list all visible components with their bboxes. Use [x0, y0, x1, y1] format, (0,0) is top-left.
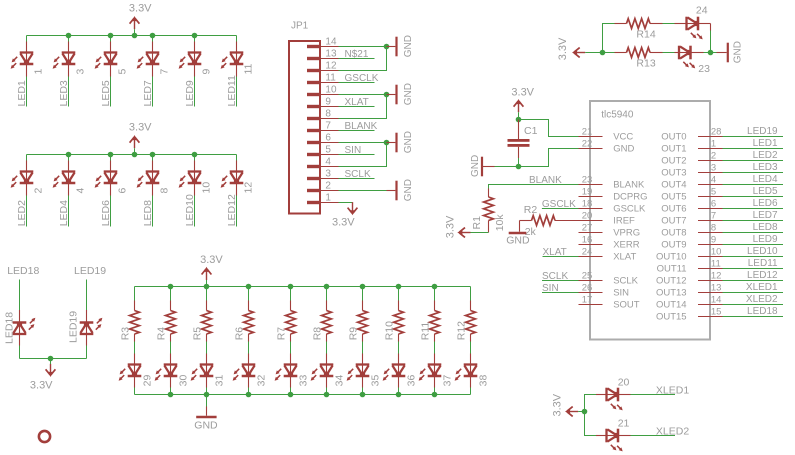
svg-text:LED9: LED9 — [184, 80, 196, 106]
IC pin 21 VCC — [579, 136, 603, 138]
hole marker — [39, 431, 50, 442]
ground GND (R2) — [519, 221, 521, 232]
ground GND (JP1 pin 14) — [387, 46, 396, 48]
wire 3.3V rail row2 — [27, 154, 237, 156]
wire LED10 anode — [194, 155, 196, 161]
connector JP1 body — [289, 41, 320, 214]
svg-text:OUT14: OUT14 — [656, 300, 687, 311]
resistor R10 — [394, 311, 404, 335]
wire LED1 anode — [26, 36, 28, 42]
junction row1 supply — [132, 33, 138, 39]
wire 3.3V to junction XLED — [578, 411, 584, 413]
svg-text:OUT15: OUT15 — [656, 312, 687, 323]
LED LED9 — [179, 52, 202, 69]
IC pin 27 VPRG — [579, 232, 603, 234]
wire LED 33 cathode — [290, 376, 292, 388]
svg-text:LED8: LED8 — [142, 200, 154, 226]
wire R11 to LED — [434, 334, 436, 342]
svg-text:3.3V: 3.3V — [511, 87, 534, 99]
wire R12 to LED — [470, 334, 472, 342]
svg-text:LED6: LED6 — [753, 198, 778, 209]
IC pin 3 OUT3 — [698, 172, 723, 174]
wire net LED4 — [723, 184, 784, 186]
svg-text:XERR: XERR — [613, 240, 640, 251]
wire JP1 pin 6 to GND — [339, 142, 387, 144]
svg-text:GND: GND — [403, 131, 414, 153]
wire LED 34 cathode — [326, 376, 328, 388]
IC pin 11 OUT11 — [698, 268, 723, 270]
wire R3 top — [134, 287, 136, 301]
wire net LED8 — [723, 232, 784, 234]
junction JP1 GND pins 6/4 — [384, 140, 390, 146]
svg-text:9: 9 — [200, 69, 212, 75]
capacitor C1 — [518, 120, 520, 140]
svg-text:GND: GND — [403, 179, 414, 201]
svg-text:34: 34 — [334, 375, 346, 387]
svg-text:26: 26 — [582, 283, 593, 294]
resistor R6 — [244, 311, 254, 335]
IC pin 6 OUT6 — [698, 208, 723, 210]
svg-text:24: 24 — [696, 4, 708, 16]
wire LED7 anode — [152, 36, 154, 42]
junction GND node — [516, 164, 522, 170]
junction array top col7 — [360, 284, 366, 290]
svg-text:LED11: LED11 — [226, 75, 238, 106]
svg-text:5: 5 — [116, 69, 128, 75]
svg-text:3.3V: 3.3V — [129, 122, 152, 134]
LED LED18 — [13, 318, 36, 335]
junction array bottom col3 — [204, 392, 210, 398]
wire R9 to LED — [362, 334, 364, 342]
svg-text:SCLK: SCLK — [613, 276, 638, 287]
wire R10 to LED — [398, 334, 400, 342]
resistor R7 — [286, 311, 296, 335]
LED LED19 — [80, 318, 103, 335]
wire 3.3V to junction — [585, 52, 602, 54]
wire LED18 cathode — [19, 280, 21, 311]
wire net LED19 — [723, 136, 784, 138]
svg-text:10: 10 — [711, 247, 722, 258]
wire GND to pin22 — [519, 149, 579, 167]
junction row1 col3 — [108, 33, 114, 39]
svg-text:XLED1: XLED1 — [656, 384, 689, 396]
wire net BLANK (JP1 pin 7) — [339, 130, 375, 132]
wire LED 32 cathode — [248, 376, 250, 388]
svg-text:OUT3: OUT3 — [661, 168, 686, 179]
svg-text:XLED1: XLED1 — [746, 282, 778, 293]
wire net SIN — [542, 292, 579, 294]
svg-text:OUT10: OUT10 — [656, 252, 687, 263]
connector JP1 pin 2 — [307, 189, 320, 192]
svg-text:8: 8 — [711, 223, 716, 234]
IC pin 19 DCPRG — [579, 196, 603, 198]
wire LED2 cathode — [26, 183, 28, 196]
svg-text:11: 11 — [325, 73, 336, 84]
LED array 34 — [311, 364, 334, 381]
wire net XLAT — [543, 256, 579, 258]
wire LED 35 cathode — [362, 376, 364, 388]
svg-text:OUT4: OUT4 — [661, 180, 686, 191]
wire net GSCLK (JP1 pin 11) — [339, 82, 375, 84]
svg-text:OUT12: OUT12 — [656, 276, 687, 287]
IC pin 13 OUT13 — [698, 292, 723, 294]
wire R5 to LED — [206, 334, 208, 342]
wire net LED11 — [723, 268, 784, 270]
resistor R3 — [130, 311, 140, 335]
wire net SCLK (JP1 pin 3) — [339, 178, 375, 180]
IC pin 24 XLAT — [579, 256, 603, 258]
svg-text:GND: GND — [403, 35, 414, 57]
connector JP1 pin 14 — [307, 45, 320, 48]
LED array 35 — [347, 364, 370, 381]
LED LED11 — [221, 52, 244, 69]
svg-text:10k: 10k — [494, 214, 506, 232]
IC pin 28 OUT0 — [698, 136, 723, 138]
svg-text:SCLK: SCLK — [542, 271, 568, 282]
wire LED23 cathode — [691, 52, 704, 54]
wire LED1 cathode — [26, 64, 28, 77]
wire LED19 cathode — [86, 280, 88, 311]
wire R1 to 3.3V — [488, 221, 490, 233]
svg-text:N$21: N$21 — [345, 49, 369, 60]
wire LED 30 cathode — [170, 376, 172, 388]
svg-text:1: 1 — [711, 139, 716, 150]
wire R12 top — [470, 287, 472, 301]
svg-text:3.3V: 3.3V — [30, 380, 53, 392]
ground GND (JP1 pin 2) — [387, 190, 396, 192]
svg-text:LED7: LED7 — [753, 210, 778, 221]
LED array 32 — [233, 364, 256, 381]
wire JP1 pin 12 to GND — [339, 47, 387, 71]
svg-text:SIN: SIN — [345, 145, 362, 156]
wire to R13 — [603, 52, 615, 54]
wire JP1 pin 1 to 3.3V — [339, 202, 353, 204]
svg-text:28: 28 — [711, 127, 722, 138]
svg-text:LED6: LED6 — [100, 200, 112, 226]
connector JP1 pin 11 — [307, 81, 320, 84]
junction row1 col4 — [150, 33, 156, 39]
IC pin 17 SOUT — [579, 304, 603, 306]
IC pin 22 GND — [579, 148, 603, 150]
wire LED11 anode — [236, 36, 238, 42]
svg-text:DCPRG: DCPRG — [613, 192, 647, 203]
resistor R14 — [615, 23, 627, 25]
svg-text:XLED2: XLED2 — [656, 426, 689, 438]
svg-text:LED4: LED4 — [753, 174, 778, 185]
svg-text:7: 7 — [158, 69, 170, 75]
svg-text:3.3V: 3.3V — [551, 393, 563, 416]
svg-text:36: 36 — [406, 375, 418, 387]
svg-text:LED1: LED1 — [16, 80, 28, 106]
wire R11 top — [434, 287, 436, 301]
svg-text:GND: GND — [613, 144, 634, 155]
resistor R1 — [488, 189, 490, 198]
svg-text:R2: R2 — [524, 204, 538, 216]
IC pin 23 BLANK — [579, 184, 603, 186]
svg-text:LED19: LED19 — [74, 265, 106, 277]
wire net XLAT (JP1 pin 9) — [339, 106, 375, 108]
svg-text:GSCLK: GSCLK — [345, 73, 379, 84]
wire net XLED2 — [723, 304, 784, 306]
svg-text:R12: R12 — [456, 321, 468, 340]
svg-text:XLAT: XLAT — [543, 247, 567, 258]
wire net GSCLK — [542, 208, 579, 210]
wire R14 to LED24 — [663, 23, 675, 25]
svg-text:4: 4 — [711, 175, 716, 186]
LED array 36 — [383, 364, 406, 381]
wire net LED2 — [723, 160, 784, 162]
svg-text:4: 4 — [325, 157, 331, 168]
wire R5 top — [206, 287, 208, 301]
svg-text:GSCLK: GSCLK — [542, 199, 576, 210]
wire net LED10 — [723, 256, 784, 258]
svg-text:6: 6 — [711, 199, 716, 210]
IC pin 12 OUT12 — [698, 280, 723, 282]
svg-text:XLAT: XLAT — [613, 252, 636, 263]
svg-text:OUT7: OUT7 — [661, 216, 686, 227]
svg-text:IREF: IREF — [613, 216, 635, 227]
svg-text:OUT6: OUT6 — [661, 204, 686, 215]
svg-text:LED3: LED3 — [753, 162, 778, 173]
ground GND (LED23/24) — [711, 52, 717, 54]
wire JP1 pin 2 to GND — [339, 190, 387, 192]
wire LED18 LED19 common anode rail — [20, 358, 87, 360]
svg-text:3.3V: 3.3V — [557, 37, 569, 60]
svg-text:R3: R3 — [120, 327, 132, 341]
svg-text:2: 2 — [325, 181, 331, 192]
connector JP1 pin 5 — [307, 153, 320, 156]
svg-text:8: 8 — [158, 188, 170, 194]
resistor R2 — [520, 220, 532, 222]
svg-text:3: 3 — [74, 69, 86, 75]
resistor R12 — [466, 311, 476, 335]
junction LED18/19 rail — [48, 356, 54, 362]
svg-text:LED2: LED2 — [16, 200, 28, 226]
svg-text:8: 8 — [325, 109, 331, 120]
wire LED12 cathode — [236, 183, 238, 196]
svg-text:LED18: LED18 — [7, 265, 39, 277]
junction array bottom col6 — [324, 392, 330, 398]
junction array bottom col2 — [168, 392, 174, 398]
LED array 33 — [275, 364, 298, 381]
wire LED3 anode — [68, 36, 70, 42]
svg-text:13: 13 — [325, 49, 337, 60]
junction array bottom col5 — [288, 392, 294, 398]
wire R6 top — [248, 287, 250, 301]
wire LED4 cathode — [68, 183, 70, 196]
svg-text:1: 1 — [32, 69, 44, 75]
wire net LED7 — [723, 220, 784, 222]
svg-text:OUT1: OUT1 — [661, 144, 686, 155]
wire LED7 cathode — [152, 64, 154, 77]
supply 3.3V R13/R14 — [572, 48, 585, 58]
svg-text:31: 31 — [214, 375, 226, 387]
wire JP1 pin 8 to GND — [339, 95, 387, 119]
svg-text:VPRG: VPRG — [613, 228, 640, 239]
wire net XLED1 — [723, 292, 784, 294]
wire net LED3 — [723, 172, 784, 174]
svg-text:OUT0: OUT0 — [661, 132, 686, 143]
svg-text:1: 1 — [325, 193, 331, 204]
junction XLED — [582, 409, 588, 415]
svg-text:22: 22 — [582, 139, 593, 150]
svg-text:5: 5 — [325, 145, 331, 156]
svg-text:LED7: LED7 — [142, 80, 154, 106]
svg-text:10: 10 — [200, 182, 212, 194]
svg-text:R11: R11 — [420, 322, 432, 341]
svg-text:SOUT: SOUT — [613, 300, 640, 311]
svg-text:9: 9 — [325, 97, 331, 108]
junction row2 supply — [132, 152, 138, 158]
svg-text:3.3V: 3.3V — [200, 254, 223, 266]
LED array 38 — [455, 364, 478, 381]
supply 3.3V row1 — [130, 16, 140, 29]
svg-text:OUT13: OUT13 — [656, 288, 687, 299]
svg-text:GND: GND — [733, 41, 744, 63]
wire LED 31 cathode — [206, 376, 208, 388]
svg-text:LED8: LED8 — [753, 222, 778, 233]
svg-text:LED2: LED2 — [753, 150, 778, 161]
svg-text:LED1: LED1 — [753, 138, 778, 149]
svg-text:LED19: LED19 — [747, 126, 778, 137]
connector JP1 pin 4 — [307, 165, 320, 168]
svg-text:R6: R6 — [234, 327, 246, 341]
LED array 31 — [191, 364, 214, 381]
svg-text:LED10: LED10 — [747, 246, 778, 257]
svg-text:R14: R14 — [636, 29, 655, 41]
svg-text:23: 23 — [582, 175, 593, 186]
supply 3.3V array — [202, 267, 212, 280]
wire to R14 — [603, 24, 615, 53]
LED 24 — [686, 17, 703, 40]
wire R8 to LED — [326, 334, 328, 342]
svg-text:12: 12 — [711, 271, 722, 282]
wire R7 top — [290, 287, 292, 301]
wire net LED12 — [723, 280, 784, 282]
svg-text:11: 11 — [711, 259, 721, 270]
connector JP1 pin 9 — [307, 105, 320, 108]
junction row1 col2 — [66, 33, 72, 39]
wire LED5 anode — [110, 36, 112, 42]
connector JP1 pin 12 — [307, 69, 320, 72]
svg-text:LED18: LED18 — [747, 306, 778, 317]
wire R9 top — [362, 287, 364, 301]
svg-text:JP1: JP1 — [291, 21, 309, 32]
svg-text:LED18: LED18 — [3, 312, 15, 344]
junction array bottom col4 — [246, 392, 252, 398]
svg-text:20: 20 — [618, 376, 630, 388]
svg-text:2: 2 — [32, 188, 44, 194]
svg-text:LED4: LED4 — [58, 200, 70, 226]
junction JP1 GND pins 10/8 — [384, 92, 390, 98]
svg-text:16: 16 — [582, 235, 593, 246]
wire LED 38 cathode — [470, 376, 472, 388]
IC pin 14 OUT14 — [698, 304, 723, 306]
supply 3.3V XLED — [565, 407, 578, 417]
svg-text:R13: R13 — [636, 58, 655, 70]
svg-text:LED5: LED5 — [100, 80, 112, 106]
wire JP1 pin 4 to GND — [339, 143, 387, 167]
wire LED 36 cathode — [398, 376, 400, 388]
svg-text:OUT2: OUT2 — [661, 156, 686, 167]
svg-text:R8: R8 — [312, 327, 324, 341]
wire VCC to pin21 — [519, 120, 579, 137]
wire LED6 cathode — [110, 183, 112, 196]
svg-text:14: 14 — [711, 295, 722, 306]
IC pin 26 SIN — [579, 292, 603, 294]
IC pin 20 IREF — [579, 220, 603, 222]
svg-text:23: 23 — [698, 63, 710, 75]
IC pin 4 OUT4 — [698, 184, 723, 186]
svg-text:LED3: LED3 — [58, 80, 70, 106]
wire JP1 pin 10 to GND — [339, 94, 387, 96]
wire net LED6 — [723, 208, 784, 210]
svg-text:5: 5 — [711, 187, 716, 198]
LED LED1 — [11, 52, 34, 69]
junction array top col6 — [324, 284, 330, 290]
ground GND (C1) — [495, 166, 519, 168]
svg-text:12: 12 — [242, 182, 254, 194]
svg-text:SCLK: SCLK — [345, 169, 371, 180]
IC U1 tlc5940 body — [590, 101, 710, 340]
wire net LED9 — [723, 244, 784, 246]
connector JP1 pin 8 — [307, 117, 320, 120]
LED 23 — [678, 46, 695, 69]
resistor R5 — [202, 311, 212, 335]
IC pin 25 SCLK — [579, 280, 603, 282]
svg-text:R1: R1 — [471, 216, 483, 230]
svg-text:2: 2 — [711, 151, 716, 162]
connector JP1 pin 10 — [307, 93, 320, 96]
svg-text:29: 29 — [142, 375, 154, 387]
wire net LED18 — [723, 316, 784, 318]
svg-text:SIN: SIN — [613, 288, 629, 299]
svg-text:24: 24 — [582, 247, 593, 258]
wire LED9 anode — [194, 36, 196, 42]
svg-text:SIN: SIN — [542, 283, 559, 294]
junction array bottom col8 — [396, 392, 402, 398]
wire net N$21 (JP1 pin 13) — [339, 58, 375, 60]
svg-text:OUT5: OUT5 — [661, 192, 686, 203]
svg-text:15: 15 — [711, 307, 722, 318]
wire array GND bottom rail — [135, 394, 471, 396]
IC pin 16 XERR — [579, 244, 603, 246]
wire net SIN (JP1 pin 5) — [339, 154, 375, 156]
supply 3.3V row2 — [130, 135, 140, 148]
junction row2 col3 — [108, 152, 114, 158]
LED LED4 — [53, 171, 76, 188]
wire R4 to LED — [170, 334, 172, 342]
junction array top col9 — [432, 284, 438, 290]
svg-text:4: 4 — [74, 188, 86, 194]
svg-text:6: 6 — [325, 133, 331, 144]
LED LED3 — [53, 52, 76, 69]
LED LED2 — [11, 171, 34, 188]
IC pin 9 OUT9 — [698, 244, 723, 246]
connector JP1 pin 13 — [307, 57, 320, 60]
svg-text:21: 21 — [618, 418, 630, 430]
supply 3.3V JP1 pin1 — [348, 202, 358, 215]
svg-text:30: 30 — [178, 375, 190, 387]
svg-text:XLED2: XLED2 — [746, 294, 778, 305]
wire LED2 anode — [26, 155, 28, 161]
LED LED6 — [95, 171, 118, 188]
connector JP1 pin 1 — [307, 201, 320, 204]
svg-text:9: 9 — [711, 235, 716, 246]
wire net LED5 — [723, 196, 784, 198]
svg-text:17: 17 — [582, 295, 593, 306]
svg-text:LED19: LED19 — [68, 311, 80, 343]
